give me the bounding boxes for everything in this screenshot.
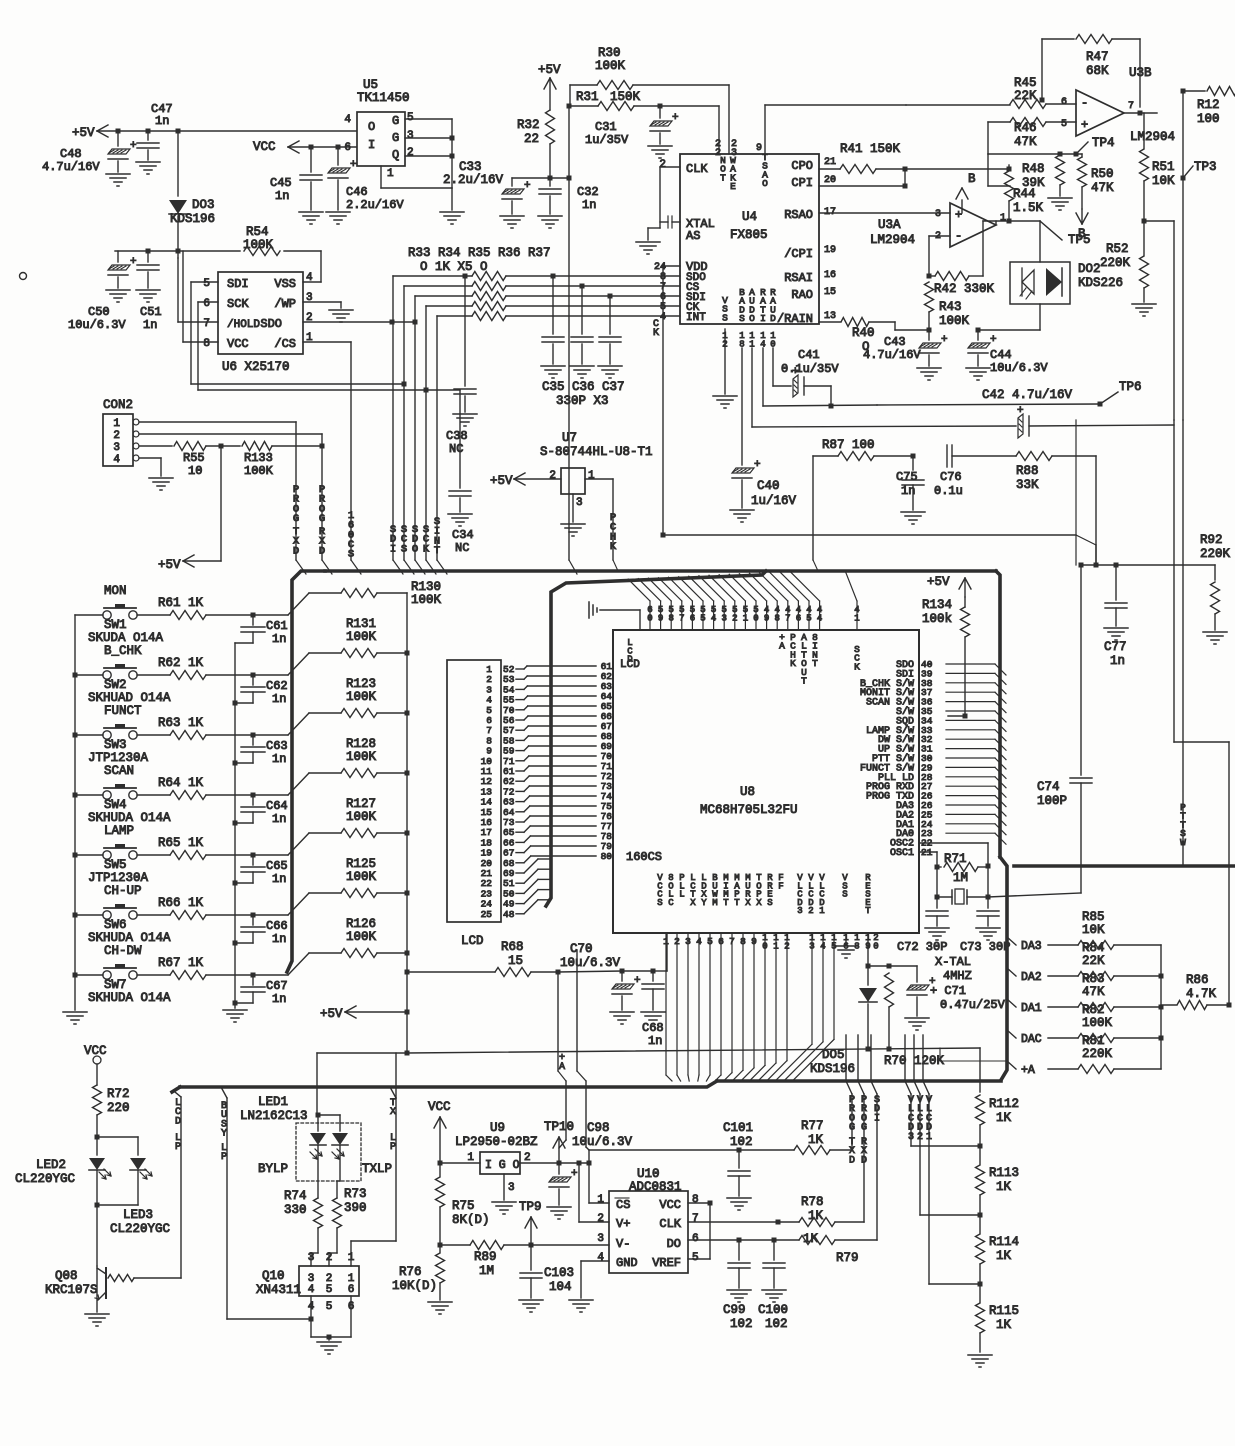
IC U4 FX805	[680, 154, 819, 324]
wire VL supply down	[576, 950, 578, 1071]
svg-text:C40: C40	[757, 479, 780, 493]
svg-text:C48: C48	[60, 147, 82, 161]
capacitor C51	[146, 249, 151, 254]
svg-text:220: 220	[107, 1101, 130, 1115]
svg-text:VCC: VCC	[428, 1100, 451, 1114]
svg-text:R62 1K: R62 1K	[158, 656, 204, 670]
svg-text:LM2904: LM2904	[870, 233, 915, 247]
svg-text:47K: 47K	[1082, 985, 1105, 999]
svg-text:7: 7	[1128, 101, 1134, 112]
svg-text:PCHK: PCHK	[610, 512, 617, 553]
svg-text:R33 R34 R35 R36 R37: R33 R34 R35 R36 R37	[408, 246, 551, 260]
resistor R33	[393, 275, 472, 277]
svg-text:1n: 1n	[272, 632, 286, 646]
svg-text:3: 3	[508, 1182, 515, 1194]
svg-text:DO2: DO2	[1078, 262, 1101, 276]
svg-text:C76: C76	[940, 470, 962, 484]
arrow B below R50	[1076, 213, 1082, 224]
svg-text:R85: R85	[1082, 910, 1105, 924]
diode DO3 KDS196	[169, 200, 187, 214]
crystal cap at XTAL	[672, 221, 680, 223]
svg-text:CL220YGC: CL220YGC	[15, 1172, 75, 1186]
svg-text:SCK: SCK	[854, 644, 860, 672]
svg-text:102: 102	[765, 1317, 788, 1331]
svg-text:U3A: U3A	[878, 218, 901, 232]
svg-text:+A: +A	[559, 1053, 565, 1073]
wire vertical R86 riser	[1228, 742, 1230, 1005]
svg-text:SKHUDA O14A: SKHUDA O14A	[88, 991, 171, 1005]
svg-text:O 1K X5 O: O 1K X5 O	[420, 260, 488, 274]
svg-text:1K: 1K	[996, 1249, 1012, 1263]
svg-text:2: 2	[113, 430, 120, 442]
svg-text:XN4311: XN4311	[256, 1283, 301, 1297]
svg-text:R83: R83	[1082, 972, 1105, 986]
svg-text:KRC107S: KRC107S	[45, 1283, 98, 1297]
svg-text:+: +	[941, 334, 948, 346]
svg-text:RXD: RXD	[319, 526, 326, 557]
svg-text:8: 8	[692, 1194, 699, 1206]
svg-text:100K: 100K	[595, 59, 626, 73]
svg-text:10K: 10K	[1152, 174, 1175, 188]
wire LCD pin 20	[516, 862, 524, 864]
resistor R37	[437, 315, 472, 317]
svg-text:7: 7	[203, 318, 210, 330]
svg-text:RSAO: RSAO	[784, 208, 813, 222]
svg-text:U10: U10	[637, 1167, 660, 1181]
svg-text:R61 1K: R61 1K	[158, 596, 204, 610]
svg-text:R82: R82	[1082, 1003, 1105, 1017]
svg-text:4: 4	[113, 454, 120, 466]
U8 right pin wires into bus	[946, 663, 995, 665]
svg-text:5: 5	[1061, 119, 1067, 130]
svg-text:TXD: TXD	[849, 1137, 855, 1166]
wire LCD pin 9	[516, 750, 524, 752]
svg-text:SDO: SDO	[260, 317, 282, 331]
svg-text:C67: C67	[266, 979, 288, 993]
svg-text:SW3: SW3	[104, 738, 127, 752]
svg-text:VLCD1: VLCD1	[926, 1095, 932, 1143]
svg-text:R92: R92	[1200, 533, 1223, 547]
svg-text:C101: C101	[723, 1121, 753, 1135]
wire LCD pin 4	[516, 699, 524, 701]
left edge dot	[20, 273, 27, 280]
svg-text:160CS: 160CS	[348, 510, 354, 561]
svg-text:2: 2	[715, 148, 721, 159]
svg-text:BUWM: BUWM	[712, 873, 718, 908]
svg-text:5: 5	[326, 1301, 333, 1313]
svg-text:22K: 22K	[1082, 954, 1105, 968]
svg-text:R87 100: R87 100	[822, 438, 875, 452]
node +5V tap shield	[405, 1010, 410, 1015]
svg-text:KDS196: KDS196	[810, 1062, 855, 1076]
svg-text:CLK: CLK	[659, 1217, 681, 1231]
capacitor C38 NC	[464, 276, 466, 386]
svg-text:330: 330	[284, 1203, 307, 1217]
svg-text:6: 6	[344, 142, 351, 154]
svg-text:VCC: VCC	[227, 337, 249, 351]
bus label VLCD2	[913, 1035, 915, 1081]
svg-text:RAUD: RAUD	[770, 287, 776, 324]
svg-text:10u/6.3V: 10u/6.3V	[560, 956, 621, 970]
svg-text:C45: C45	[270, 176, 292, 190]
svg-text:R81: R81	[1082, 1034, 1105, 1048]
svg-text:CPI: CPI	[791, 176, 813, 190]
svg-text:SCAN: SCAN	[104, 764, 134, 778]
wire jog into shield SW3	[288, 713, 309, 735]
node cap junction SW5	[251, 853, 256, 858]
wire U6 SDI down	[191, 281, 218, 283]
svg-text:DO5: DO5	[822, 1048, 845, 1062]
svg-text:22: 22	[524, 132, 539, 146]
wire jog into shield SW2	[288, 653, 309, 675]
wire SQD to R134	[948, 715, 965, 717]
svg-text:Q08: Q08	[55, 1269, 78, 1283]
svg-text:100K: 100K	[346, 870, 377, 884]
svg-text:1n: 1n	[272, 692, 286, 706]
svg-text:CS: CS	[616, 1198, 630, 1212]
svg-text:8: 8	[203, 338, 210, 350]
svg-text:SDI: SDI	[874, 1095, 880, 1124]
svg-text:VLCD3: VLCD3	[797, 873, 803, 916]
wire CON2 pin1 to PROG TXD	[139, 421, 296, 423]
svg-text:SW4: SW4	[104, 798, 127, 812]
wire LCD pin 22	[516, 882, 524, 884]
svg-text:+: +	[1081, 118, 1088, 132]
svg-text:9: 9	[756, 143, 762, 154]
svg-text:V-: V-	[616, 1237, 630, 1251]
svg-text:OSC1: OSC1	[890, 848, 914, 859]
wire LCD pin 2	[516, 678, 524, 680]
capacitor C66 1n	[252, 915, 254, 925]
svg-text:15: 15	[824, 287, 836, 298]
wire LCD pin 5	[516, 709, 524, 711]
pin41 wire into bus	[856, 601, 858, 630]
svg-text:6: 6	[692, 1233, 699, 1245]
svg-text:2: 2	[524, 1152, 531, 1164]
svg-text:5: 5	[326, 1284, 333, 1296]
wire U4 CLK	[660, 166, 680, 168]
wire long vertical x663	[662, 266, 664, 535]
svg-text:4MHZ: 4MHZ	[943, 969, 972, 983]
svg-text:R79: R79	[836, 1251, 859, 1265]
svg-text:B: B	[968, 172, 976, 186]
svg-text:+: +	[929, 976, 936, 988]
svg-text:8K(D): 8K(D)	[452, 1213, 490, 1227]
svg-text:8OLC: 8OLC	[668, 873, 674, 908]
svg-text:C64: C64	[266, 799, 288, 813]
wire U3A output	[995, 221, 997, 225]
svg-text:R125: R125	[346, 857, 376, 871]
wire U6 VCC to +5 node	[183, 341, 218, 343]
svg-text:CL220YGC: CL220YGC	[110, 1222, 170, 1236]
wire TX LP line	[390, 1087, 396, 1098]
svg-text:20: 20	[824, 175, 836, 186]
svg-text:ALTOUT: ALTOUT	[801, 632, 807, 687]
svg-text:MURX: MURX	[745, 873, 751, 908]
svg-text:PROG: PROG	[861, 1095, 867, 1134]
wire U5 pin1	[380, 166, 382, 188]
svg-text:+5V: +5V	[538, 63, 561, 77]
wire LCD pin 16	[516, 821, 524, 823]
svg-text:U4: U4	[742, 210, 757, 224]
wire CLK net	[688, 1221, 778, 1223]
svg-text:R55: R55	[183, 451, 205, 465]
wire R130 rail vertical	[406, 593, 408, 1053]
svg-text:TXD: TXD	[293, 526, 300, 557]
svg-text:PLL: PLL	[679, 873, 684, 900]
svg-text:0.1u/35V: 0.1u/35V	[781, 362, 839, 376]
svg-text:10: 10	[770, 331, 775, 349]
svg-text:C42 4.7u/16V: C42 4.7u/16V	[982, 388, 1073, 402]
svg-text:DA3: DA3	[1021, 940, 1042, 953]
wire U6 SCK row link	[198, 389, 460, 391]
wire +A exit	[1007, 1061, 1016, 1069]
svg-text:CON2: CON2	[103, 398, 133, 412]
svg-text:LP: LP	[390, 1133, 396, 1153]
svg-text:SKUDA O14A: SKUDA O14A	[88, 631, 164, 645]
wire LCD pin 1	[516, 668, 524, 670]
svg-text:NOT: NOT	[720, 155, 726, 183]
svg-text:LAMP: LAMP	[104, 824, 134, 838]
svg-text:100K: 100K	[346, 930, 377, 944]
node LED split	[95, 1135, 100, 1140]
svg-text:R52: R52	[1106, 242, 1129, 256]
svg-text:3: 3	[731, 148, 737, 159]
wire CON2 pin2 to PROG RXD	[139, 433, 322, 435]
svg-text:C99: C99	[723, 1303, 746, 1317]
capacitor C35	[551, 274, 556, 279]
svg-text:R74: R74	[284, 1189, 307, 1203]
capacitor C46	[336, 145, 341, 150]
svg-text:VCC: VCC	[659, 1198, 681, 1212]
svg-text:1n: 1n	[648, 1034, 662, 1048]
wire U7 pin3 ground	[572, 494, 574, 522]
wire LCD pin 25	[516, 913, 524, 915]
svg-text:VSS: VSS	[274, 277, 296, 291]
wire LCD pin 24	[516, 903, 524, 905]
svg-text:+5V: +5V	[72, 126, 95, 140]
wire LCD LP line	[180, 1097, 182, 1278]
svg-text:TP10: TP10	[544, 1120, 574, 1134]
node junction C48	[116, 129, 121, 134]
svg-text:R126: R126	[346, 917, 376, 931]
wire 5V node to U10	[559, 1162, 589, 1164]
svg-text:+A: +A	[1021, 1064, 1035, 1077]
bus label VLCD1	[922, 1035, 924, 1081]
svg-text:LED3: LED3	[123, 1208, 153, 1222]
svg-text:R131: R131	[346, 617, 376, 631]
svg-text:CH-UP: CH-UP	[104, 884, 142, 898]
svg-text:LP: LP	[175, 1133, 181, 1153]
svg-text:10u/6.3V: 10u/6.3V	[68, 318, 126, 332]
svg-text:10: 10	[188, 464, 202, 478]
svg-text:4: 4	[308, 1284, 315, 1296]
svg-text:R68: R68	[501, 940, 524, 954]
svg-text:C46: C46	[346, 185, 368, 199]
svg-text:C35 C36 C37: C35 C36 C37	[542, 380, 625, 394]
svg-text:PROG: PROG	[319, 484, 326, 525]
svg-text:C41: C41	[798, 348, 820, 362]
svg-text:G: G	[392, 114, 399, 128]
svg-text:R45: R45	[1014, 76, 1037, 90]
svg-text:RXD: RXD	[861, 1137, 867, 1166]
svg-text:R32: R32	[517, 118, 540, 132]
svg-text:NC: NC	[455, 541, 469, 555]
capacitor C73 30P	[987, 897, 989, 908]
svg-text:10u/6.3V: 10u/6.3V	[572, 1135, 633, 1149]
svg-text:R73: R73	[344, 1187, 367, 1201]
svg-text:25: 25	[481, 909, 493, 920]
wire +A inside	[940, 1060, 1007, 1062]
bus drop SCS	[403, 286, 405, 560]
svg-text:R133: R133	[244, 451, 273, 465]
svg-text:R128: R128	[346, 737, 376, 751]
svg-text:LED1: LED1	[258, 1095, 288, 1109]
svg-text:1n: 1n	[143, 318, 157, 332]
node +5V tap	[219, 444, 224, 449]
svg-text:1n: 1n	[272, 932, 286, 946]
svg-text:18: 18	[854, 933, 859, 951]
wire C50/C51 node	[115, 250, 178, 252]
svg-text:G: G	[392, 131, 399, 145]
svg-text:R114: R114	[989, 1235, 1019, 1249]
svg-text:+: +	[524, 180, 531, 192]
svg-text:1n: 1n	[582, 198, 596, 212]
svg-text:15: 15	[508, 954, 523, 968]
wire DA1 exit	[1007, 999, 1016, 1007]
capacitor C50	[117, 251, 119, 262]
LED3 CL220YGC	[130, 1158, 146, 1170]
bus drop SDO	[414, 296, 416, 560]
svg-text:0.47u/25V: 0.47u/25V	[940, 998, 1006, 1012]
svg-text:2: 2	[407, 147, 414, 159]
svg-text:C34: C34	[452, 528, 474, 542]
svg-text:160CS: 160CS	[626, 850, 662, 864]
svg-text:LDXY: LDXY	[701, 873, 707, 908]
bus drop SCK	[425, 306, 427, 560]
svg-text:R127: R127	[346, 797, 376, 811]
svg-text:R130: R130	[411, 580, 441, 594]
svg-text:U7: U7	[562, 431, 577, 445]
wire +A down	[557, 972, 559, 1071]
svg-text:R43: R43	[939, 300, 962, 314]
svg-text:1M: 1M	[953, 871, 968, 885]
wire C33/C32 node	[512, 177, 569, 179]
svg-text:5: 5	[203, 278, 210, 290]
svg-text:SDI: SDI	[227, 277, 249, 291]
svg-text:SW6: SW6	[104, 918, 127, 932]
svg-text:11: 11	[749, 331, 754, 349]
svg-text:JTP1230A: JTP1230A	[88, 751, 149, 765]
svg-text:+5V: +5V	[927, 575, 950, 589]
ground U5 rail	[451, 188, 453, 210]
svg-text:Q: Q	[392, 148, 399, 162]
wire U4 pin18 to C40	[741, 348, 743, 465]
wire jog into shield SW6	[288, 893, 309, 915]
svg-text:R63 1K: R63 1K	[158, 716, 204, 730]
wire vertical 1174	[1173, 420, 1175, 742]
resistor R130 100K	[309, 592, 341, 594]
svg-text:R12: R12	[1197, 98, 1220, 112]
wire OSC1 stub	[919, 851, 937, 853]
svg-text:1M: 1M	[479, 1264, 494, 1278]
svg-text:2.2u/16V: 2.2u/16V	[443, 173, 504, 187]
svg-text:C98: C98	[587, 1121, 610, 1135]
svg-text:R89: R89	[474, 1250, 497, 1264]
svg-text:3: 3	[113, 442, 120, 454]
svg-text:4: 4	[344, 114, 351, 126]
svg-text:U8: U8	[740, 785, 755, 799]
svg-text:NC: NC	[449, 442, 463, 456]
svg-text:TK11450: TK11450	[357, 91, 410, 105]
svg-text:R123: R123	[346, 677, 376, 691]
svg-text:1n: 1n	[275, 189, 289, 203]
svg-text:18: 18	[739, 331, 744, 349]
capacitor ground rail	[234, 643, 236, 1008]
svg-text:6: 6	[203, 298, 210, 310]
svg-text:C38: C38	[446, 429, 468, 443]
svg-text:100K: 100K	[346, 750, 377, 764]
wire jog into shield SW5	[288, 833, 309, 855]
svg-text:Q10: Q10	[262, 1269, 285, 1283]
svg-text:/WP: /WP	[274, 297, 296, 311]
wire bottom node	[405, 1051, 410, 1056]
svg-text:C70: C70	[570, 942, 593, 956]
svg-text:PCHK: PCHK	[790, 632, 796, 669]
shield border inner notch	[546, 571, 766, 906]
svg-text:3: 3	[597, 1233, 604, 1245]
wire U10 GND	[581, 1260, 609, 1262]
svg-text:+: +	[672, 112, 679, 124]
svg-text:4.7u/16V: 4.7u/16V	[863, 348, 921, 362]
capacitor C99 102	[737, 1238, 742, 1243]
wire U4 VSS pin12 ground	[724, 329, 726, 394]
svg-text:5: 5	[407, 112, 414, 124]
svg-text:LN2162C13: LN2162C13	[240, 1109, 308, 1123]
svg-text:C77: C77	[1104, 640, 1127, 654]
svg-text:R48: R48	[1022, 162, 1045, 176]
capacitor C65 1n	[252, 855, 254, 865]
svg-text:BYLP: BYLP	[258, 1162, 288, 1176]
wire C74 connect	[988, 893, 1081, 897]
svg-text:B_CHK: B_CHK	[104, 644, 142, 658]
svg-text:PTTSW: PTTSW	[1180, 802, 1186, 848]
capacitor C77 1n	[1115, 565, 1117, 600]
svg-text:MC68H705L32FU: MC68H705L32FU	[700, 803, 798, 817]
wire LCD pin 3	[516, 688, 524, 690]
svg-text:VCC: VCC	[253, 140, 276, 154]
node cap junction SW3	[251, 733, 256, 738]
svg-text:100K: 100K	[346, 690, 377, 704]
svg-text:LP: LP	[221, 1143, 227, 1163]
bus drop SDI	[392, 276, 394, 560]
ground sideways at U8 top	[600, 609, 640, 611]
capacitor C62 1n	[252, 675, 254, 685]
wire LCD pin 21	[516, 872, 524, 874]
svg-text:C63: C63	[266, 739, 288, 753]
capacitor C61 1n	[252, 615, 254, 625]
svg-text:+: +	[990, 334, 997, 346]
wire R46 node	[987, 122, 989, 154]
capacitor C100 102	[772, 1238, 777, 1243]
svg-text:R78: R78	[801, 1195, 824, 1209]
svg-text:16: 16	[824, 270, 836, 281]
wire +5V to diode node	[176, 129, 181, 134]
svg-text:1n: 1n	[272, 872, 286, 886]
capacitor C36	[580, 284, 585, 289]
svg-text:RSAI: RSAI	[784, 271, 813, 285]
svg-text:19: 19	[824, 245, 836, 256]
